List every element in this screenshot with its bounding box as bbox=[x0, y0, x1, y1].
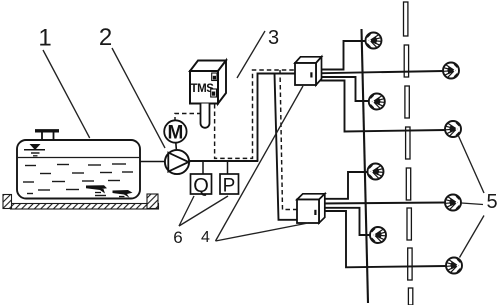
solenoid valve 4 upper box bbox=[295, 57, 322, 85]
TMS controller 3 box bbox=[190, 61, 226, 104]
road centerline dash 4 bbox=[406, 127, 410, 159]
road centerline dash 7 bbox=[408, 248, 412, 280]
leader line 2 bbox=[112, 48, 165, 148]
svg-text:2: 2 bbox=[99, 24, 112, 51]
sprinkler lower A bbox=[368, 164, 384, 180]
sprinkler lower C bbox=[370, 227, 386, 243]
water level symbol bbox=[24, 144, 45, 156]
dashed control wire M to probe bbox=[175, 114, 200, 122]
pump 2 circle with triangle bbox=[165, 150, 189, 174]
lateral pipe lower A bbox=[319, 172, 368, 199]
tank 1 water reservoir bbox=[17, 140, 140, 199]
motor M circle bbox=[164, 120, 186, 143]
ground pedestal right block bbox=[147, 194, 158, 209]
leader line 5 to sprinkler D bbox=[459, 136, 485, 193]
solenoid valve 4 lower box bbox=[297, 194, 325, 223]
leader line 5 to sprinkler lower B bbox=[462, 203, 484, 205]
sprinkler upper C bbox=[369, 94, 385, 110]
leader line 1 bbox=[43, 50, 90, 138]
sensor drop wire Q bbox=[202, 161, 204, 175]
lateral pipe upper C bbox=[316, 77, 370, 101]
svg-text:P: P bbox=[223, 176, 236, 197]
road centerline dash 3 bbox=[405, 86, 409, 118]
debris shape right bbox=[113, 190, 133, 198]
svg-text:5: 5 bbox=[486, 191, 497, 213]
leader line 4 to upper valve bbox=[216, 86, 304, 241]
svg-text:4: 4 bbox=[201, 229, 210, 246]
road centerline dash 1 bbox=[404, 2, 408, 36]
water dashes bbox=[23, 164, 133, 196]
dashed control wire branch to lower valve bbox=[280, 70, 298, 210]
lateral pipe upper A bbox=[316, 41, 366, 70]
sprinkler upper B bbox=[443, 63, 459, 79]
TMS temperature probe bbox=[201, 104, 210, 128]
svg-text:1: 1 bbox=[38, 25, 51, 52]
discharge pipe pump to riser bbox=[189, 160, 259, 162]
ground pedestal bar (hatched) bbox=[11, 204, 159, 210]
road centerline dash 6 bbox=[407, 208, 411, 240]
svg-text:3: 3 bbox=[268, 27, 279, 49]
leader line 3 bbox=[237, 31, 265, 78]
suction pipe tank to pump bbox=[140, 161, 166, 163]
debris shape left bbox=[86, 185, 107, 193]
pressure sensor P bbox=[220, 174, 239, 197]
water surface line bbox=[18, 157, 139, 159]
lateral pipe lower B bbox=[319, 203, 446, 204]
sprinkler lower B bbox=[445, 195, 461, 211]
svg-text:M: M bbox=[167, 123, 183, 144]
road centerline dash 2 bbox=[404, 45, 408, 77]
svg-text:6: 6 bbox=[173, 228, 182, 247]
road centerline dash 5 bbox=[406, 168, 410, 200]
leader line 6 to P bbox=[179, 196, 228, 226]
flow sensor Q bbox=[191, 174, 212, 197]
lateral pipe upper D bbox=[316, 81, 446, 132]
leader line 6 to Q bbox=[179, 196, 194, 226]
lateral pipe lower C bbox=[319, 208, 371, 235]
tank filler cap bbox=[35, 131, 59, 140]
lateral pipe upper B bbox=[316, 71, 444, 73]
ground pedestal left block bbox=[3, 195, 12, 209]
dashed control wire TMS to upper valve bbox=[215, 70, 296, 158]
svg-text:Q: Q bbox=[193, 175, 209, 197]
main vertical pipe line bbox=[362, 29, 369, 303]
sprinkler upper D bbox=[445, 121, 461, 137]
lateral pipe lower D bbox=[319, 211, 447, 267]
leader line 4 to lower valve bbox=[216, 223, 309, 241]
leader line 5 to sprinkler lower D bbox=[460, 216, 485, 258]
road centerline dash 8 bbox=[408, 288, 412, 305]
sprinkler upper A bbox=[366, 33, 382, 49]
sensor drop wire P bbox=[227, 161, 229, 175]
sprinkler lower D bbox=[446, 258, 462, 274]
riser pipe to upper valve bbox=[258, 74, 296, 162]
connector motor-pump bbox=[175, 143, 178, 151]
branch down-pipe to lower valve bbox=[275, 74, 299, 220]
